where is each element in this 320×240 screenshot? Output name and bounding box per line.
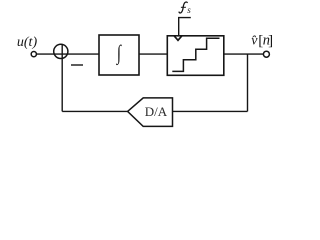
quantizer block Q1 xyxy=(167,36,224,76)
svg-text:v̂: v̂ xyxy=(251,34,258,49)
input terminal xyxy=(31,52,36,57)
minus sign at summer xyxy=(71,64,83,66)
svg-text:]: ] xyxy=(268,33,273,49)
svg-text:∫: ∫ xyxy=(116,41,122,65)
svg-text:s: s xyxy=(187,5,191,15)
wire: quantizer to output xyxy=(224,53,264,55)
integrator block U1 xyxy=(99,35,139,75)
svg-text:u(t): u(t) xyxy=(17,35,38,50)
wire: feedback tap down xyxy=(247,54,249,111)
wire: integrator to quantizer xyxy=(139,53,167,55)
label f_s xyxy=(179,2,188,13)
wire: feedback bottom left segment xyxy=(62,110,127,112)
svg-text:D/A: D/A xyxy=(145,104,168,119)
D/A converter block xyxy=(128,98,173,127)
wire: feedback vertical into summer xyxy=(61,45,63,112)
wire: f_s clock line xyxy=(179,18,191,36)
wire: feedback bottom right segment xyxy=(173,110,248,112)
wire: input to integrator (through summer) xyxy=(37,53,100,55)
quantizer staircase curve xyxy=(172,38,219,71)
output terminal xyxy=(263,51,269,57)
summing junction S1 xyxy=(54,44,68,58)
arrowhead into quantizer xyxy=(173,35,184,41)
